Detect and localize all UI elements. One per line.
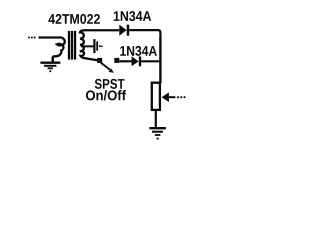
potentiometer R1 body <box>152 83 160 110</box>
switch S1 arm with arrowhead <box>101 63 114 73</box>
wire: D1 cathode to right vertical bus <box>129 30 160 40</box>
wire: R1 bottom to ground <box>155 111 157 128</box>
transformer T1 secondary winding <box>80 30 97 60</box>
capacitor-style earphone connection: continuation dots <box>99 45 103 47</box>
diode D2 1N34A <box>132 56 142 66</box>
transformer T1 primary winding <box>53 37 65 61</box>
wire: antenna input dotted lead <box>28 37 61 39</box>
diode D1 1N34A <box>119 25 129 36</box>
ground (output side) <box>149 128 166 140</box>
switch S1 label SPST <box>95 79 125 89</box>
diode D1 label 1N34A <box>114 11 151 21</box>
ground (primary side) <box>40 57 60 72</box>
node: secondary center tap lead <box>81 45 93 47</box>
wire: right vertical bus <box>159 38 161 83</box>
capacitor-style earphone connection: short plate <box>96 41 98 50</box>
switch S1 label On/Off <box>86 90 126 100</box>
transformer T1 label 42TM022 <box>48 14 100 24</box>
capacitor-style earphone connection: long plate <box>93 39 95 53</box>
transformer T1 core <box>69 31 75 60</box>
switch S1 left terminal <box>97 58 102 63</box>
wire: S1 to D2 <box>119 60 131 62</box>
wire: D2 cathode to right vertical bus <box>141 60 160 62</box>
potentiometer R1 wiper arrow <box>162 92 186 102</box>
wire: secondary top lead to D1 <box>84 29 119 31</box>
diode D2 label 1N34A <box>120 46 157 56</box>
switch S1 right terminal <box>114 58 119 63</box>
